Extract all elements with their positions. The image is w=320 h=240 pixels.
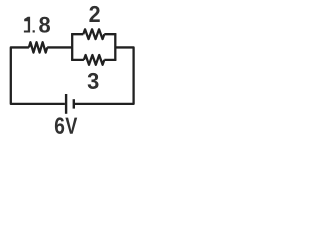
wire: parallel box output to right side down to battery short plate (75, 47, 134, 103)
resistor R3 (3 ohm) zigzag (84, 55, 104, 65)
battery V1 long plate (65, 94, 67, 114)
resistor R2 (2 ohm) zigzag (83, 29, 104, 39)
node: parallel box left vertical junction (71, 34, 73, 60)
node: parallel box right vertical junction (114, 34, 116, 60)
wire: bottom branch leads of R3 (71, 59, 116, 61)
wire: R1 right lead to parallel box (47, 46, 72, 48)
value label 6V for battery V1 (55, 117, 77, 133)
wire: left branch from R1 down and along bottom to battery long plate (11, 47, 65, 103)
value label 2 for resistor R2 (89, 6, 99, 22)
battery V1 short plate (73, 99, 75, 108)
wire: top branch leads of R2 (71, 33, 116, 35)
resistor R1 (1.8 ohm) zigzag (29, 42, 47, 52)
value label 3 for resistor R3 (88, 73, 99, 89)
value label 1.8 for resistor R1 (24, 17, 50, 33)
